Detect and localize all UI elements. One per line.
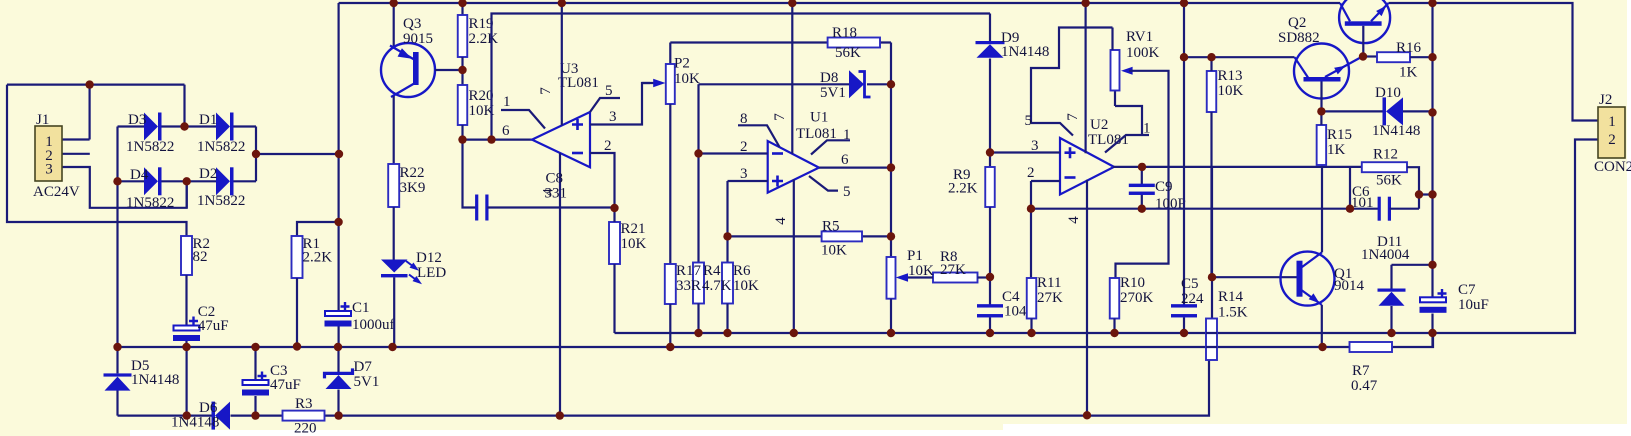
wire output top bus (right segment to J2 pin1)	[1389, 3, 1599, 121]
svg-text:C5: C5	[1181, 276, 1199, 292]
svg-text:TL081: TL081	[558, 75, 599, 91]
wire D11 top connection	[1392, 265, 1433, 289]
wire U1 pin7	[791, 3, 793, 154]
svg-text:1: 1	[503, 94, 511, 110]
wire R1 top connection	[297, 222, 339, 236]
svg-text:U2: U2	[1090, 117, 1108, 133]
capacitor C7	[1420, 297, 1446, 302]
wire R13 leads	[1210, 57, 1212, 277]
diode D6	[212, 402, 216, 430]
resistor R12	[1362, 162, 1407, 172]
svg-text:1: 1	[843, 127, 851, 143]
svg-text:7: 7	[1065, 113, 1081, 121]
wire U2 pin2 input	[1031, 181, 1060, 278]
wire D10 row	[1321, 110, 1432, 112]
diode D8 zener	[849, 70, 864, 98]
svg-text:2: 2	[1608, 132, 1616, 148]
wire bottom rail	[118, 360, 1210, 416]
resistor R6	[722, 263, 733, 304]
svg-text:5: 5	[1025, 113, 1033, 129]
svg-text:J1: J1	[36, 112, 49, 128]
svg-text:R12: R12	[1373, 147, 1398, 163]
svg-text:4: 4	[773, 217, 789, 225]
wire U1 pin1 stub	[811, 140, 850, 154]
wire C9 bottom feedback line	[1031, 208, 1380, 210]
svg-text:R4: R4	[703, 263, 721, 279]
svg-text:D1: D1	[199, 112, 217, 128]
resistor R20	[458, 85, 468, 125]
connector J2	[1598, 107, 1625, 158]
svg-text:Q2: Q2	[1288, 15, 1306, 31]
capacitor C2	[174, 326, 200, 331]
svg-text:224: 224	[1181, 291, 1204, 307]
wire U2 output	[1113, 166, 1362, 168]
svg-text:1.5K: 1.5K	[1218, 305, 1248, 321]
svg-text:3: 3	[45, 162, 53, 178]
svg-text:R13: R13	[1218, 68, 1243, 84]
svg-text:0.47: 0.47	[1351, 378, 1378, 394]
svg-text:10K: 10K	[733, 278, 759, 294]
resistor R18	[828, 38, 880, 48]
wire supply branch x=1184	[1183, 3, 1185, 307]
resistor R13	[1207, 71, 1217, 112]
wire R15 top	[1320, 111, 1322, 125]
resistor R10	[1110, 278, 1120, 319]
diode D10	[1383, 97, 1387, 125]
wire U1 pin5 stub	[809, 176, 838, 191]
svg-text:C9: C9	[1155, 179, 1173, 195]
wire Q2 node to R16	[1363, 55, 1377, 57]
wire U1 pin8 stub	[738, 125, 780, 147]
wire C8 right connection	[487, 206, 614, 208]
wire Q3 collector to R22	[393, 96, 395, 164]
wire C2 node down to bottom rail	[186, 347, 188, 416]
resistor R4	[693, 263, 704, 304]
wire C6 right plate connection	[1390, 208, 1420, 210]
svg-text:9015: 9015	[403, 31, 433, 47]
svg-text:R21: R21	[621, 221, 646, 237]
svg-text:C7: C7	[1458, 282, 1476, 298]
resistor R17	[665, 264, 676, 304]
diode D3	[144, 113, 158, 141]
wire D8 row	[699, 83, 892, 85]
wire R22 to D12	[393, 207, 395, 260]
wire U2 pin4	[1086, 180, 1088, 416]
diode D9	[976, 41, 1005, 44]
wire D9 top	[989, 14, 991, 42]
svg-text:R3: R3	[295, 396, 313, 412]
capacitor C8	[475, 195, 478, 221]
wire U2 pin5 to RV1 top loop	[1031, 28, 1113, 136]
wire P2 to R17	[669, 104, 671, 264]
wire V- rail through R14 (x continues)	[1206, 333, 1217, 347]
wire Q2 lower collector	[1320, 82, 1322, 112]
svg-text:1N5822: 1N5822	[126, 139, 174, 155]
svg-text:27K: 27K	[940, 262, 966, 278]
svg-text:R10: R10	[1120, 275, 1145, 291]
svg-text:D4: D4	[130, 167, 149, 183]
resistor R5	[822, 231, 862, 241]
svg-text:5: 5	[843, 184, 851, 200]
svg-text:1: 1	[1608, 114, 1616, 130]
wire U2 pin3 input	[990, 151, 1060, 153]
resistor R21	[609, 222, 620, 264]
svg-text:C1: C1	[352, 300, 370, 316]
svg-text:P1: P1	[907, 248, 923, 264]
svg-text:1K: 1K	[1327, 142, 1346, 158]
wire feedback bus x=891	[890, 43, 892, 258]
svg-text:1000uf: 1000uf	[352, 317, 395, 333]
svg-text:R20: R20	[469, 88, 494, 104]
wire U3 pin3 to P2 wiper	[590, 83, 656, 125]
wire base drive row y=57	[1184, 56, 1295, 58]
wire R16 right	[1410, 56, 1433, 58]
wire U3 pin1 stub	[501, 110, 545, 129]
wire R19 top	[461, 3, 463, 15]
wire P2 top connection	[669, 43, 671, 65]
svg-text:R11: R11	[1037, 275, 1061, 291]
wire U1 pin2 node vertical	[697, 84, 699, 262]
svg-text:1N4148: 1N4148	[171, 415, 219, 431]
svg-text:5: 5	[605, 83, 613, 99]
svg-text:CON2: CON2	[1594, 159, 1631, 175]
svg-text:LED: LED	[417, 265, 446, 281]
svg-text:2: 2	[1027, 165, 1035, 181]
resistor R2	[181, 236, 192, 275]
wire U2 pin7	[1084, 3, 1086, 153]
svg-text:R19: R19	[469, 16, 494, 32]
resistor R11	[1027, 278, 1037, 319]
svg-text:10K: 10K	[621, 236, 647, 252]
svg-text:3: 3	[609, 109, 617, 125]
diode D7 zener	[337, 347, 339, 416]
junction dots	[85, 80, 93, 88]
svg-text:1K: 1K	[1399, 65, 1418, 81]
wire D9 to U2 pin3 node	[989, 59, 991, 168]
wire Q2 upper base	[1362, 26, 1364, 56]
transistor Q3	[381, 43, 435, 97]
resistor R3	[283, 411, 325, 421]
transistor Q2 upper	[1339, 0, 1390, 43]
svg-text:P2: P2	[674, 56, 690, 72]
wire R12 left vertical	[1349, 167, 1351, 209]
wire bridge AC2 vertical	[186, 181, 188, 208]
svg-text:D10: D10	[1375, 85, 1401, 101]
svg-text:R22: R22	[400, 165, 425, 181]
op-amp U3	[532, 112, 590, 167]
svg-text:6: 6	[841, 152, 849, 168]
svg-text:2.2K: 2.2K	[948, 181, 978, 197]
svg-text:1N4148: 1N4148	[131, 372, 179, 388]
resistor R1	[292, 236, 303, 278]
svg-text:4.7K: 4.7K	[702, 278, 732, 294]
svg-text:56K: 56K	[835, 45, 861, 61]
svg-text:33R: 33R	[676, 278, 701, 294]
svg-text:7: 7	[538, 87, 554, 95]
svg-text:47uF: 47uF	[270, 377, 301, 393]
diode D11	[1378, 289, 1406, 292]
wire AC line from J1 pin1	[7, 85, 187, 236]
potentiometer P2	[666, 64, 675, 104]
wire U1 output	[819, 167, 891, 169]
wire R4 bottom	[697, 304, 699, 334]
svg-text:5V1: 5V1	[354, 374, 380, 390]
resistor R19	[458, 15, 468, 57]
svg-text:R6: R6	[733, 263, 751, 279]
svg-text:2: 2	[604, 138, 612, 154]
wire U3 output line	[463, 139, 533, 141]
capacitor C1	[325, 311, 351, 316]
svg-text:104: 104	[1004, 304, 1027, 320]
diode D1	[216, 113, 230, 141]
wire bridge right vertical and DC+ output	[256, 127, 339, 182]
resistor R8	[933, 273, 978, 283]
wire R14 top node to Q1 base	[1212, 167, 1298, 319]
diode D4	[144, 167, 158, 195]
transistor Q2 lower	[1294, 44, 1349, 99]
wire bridge top row	[118, 125, 257, 127]
svg-text:82: 82	[193, 249, 208, 265]
wire R8 right	[978, 276, 991, 278]
svg-text:220: 220	[294, 421, 317, 436]
svg-text:9014: 9014	[1334, 278, 1365, 294]
svg-text:R15: R15	[1327, 127, 1352, 143]
svg-text:D3: D3	[128, 112, 146, 128]
resistor R15	[1317, 125, 1327, 165]
wire bridge left vertical (AC- node)	[116, 127, 118, 348]
diode D5	[116, 347, 118, 416]
wire R1 bottom	[296, 278, 298, 346]
svg-text:101: 101	[1351, 195, 1374, 211]
wire U3 pin2	[590, 153, 615, 208]
svg-text:3: 3	[740, 166, 748, 182]
svg-text:10K: 10K	[821, 243, 847, 259]
wire J1 pin2 stub	[62, 153, 90, 155]
svg-text:3: 3	[1031, 138, 1039, 154]
wire Q1 emitter to 0V bus	[1321, 305, 1323, 347]
wire U1 pin3 input	[728, 181, 768, 263]
potentiometer RV1	[1111, 50, 1120, 91]
svg-text:7: 7	[772, 113, 788, 121]
resistor R9	[985, 167, 995, 207]
svg-text:D7: D7	[354, 359, 373, 375]
svg-text:1N4148: 1N4148	[1001, 44, 1049, 60]
wire U2 pin1 to RV1 bottom	[1105, 91, 1149, 153]
wire R17 bottom	[669, 304, 671, 347]
wire AC line from J1 pin3	[62, 167, 187, 208]
potentiometer P1	[887, 257, 896, 299]
svg-text:10K: 10K	[1218, 83, 1244, 99]
svg-text:D2: D2	[199, 166, 217, 182]
wire Q1 collector to R15	[1321, 165, 1323, 252]
wire Q3 emitter to top bus	[393, 3, 395, 47]
wire R20 to U3 output node	[461, 125, 463, 140]
svg-text:1N5822: 1N5822	[197, 139, 245, 155]
svg-text:331: 331	[545, 186, 568, 202]
op-amp U1	[768, 141, 819, 193]
wire P1 bottom	[890, 299, 892, 333]
svg-text:56K: 56K	[1376, 173, 1402, 189]
svg-text:R17: R17	[676, 263, 702, 279]
wire R18 row	[670, 41, 891, 43]
wire U3 pin7	[561, 3, 563, 126]
svg-text:R7: R7	[1352, 363, 1370, 379]
wire R21 leads	[613, 208, 615, 333]
wire D11 bottom	[1390, 306, 1392, 333]
svg-text:Q3: Q3	[403, 16, 421, 32]
svg-text:2: 2	[740, 139, 748, 155]
svg-text:270K: 270K	[1120, 290, 1154, 306]
svg-text:1N4004: 1N4004	[1361, 247, 1410, 263]
wire R12 right / C6 right side	[1407, 167, 1433, 209]
wire R6 bottom	[726, 304, 728, 334]
resistor R7	[1350, 342, 1393, 352]
wire C4 bottom	[989, 318, 991, 334]
svg-text:8: 8	[740, 111, 748, 127]
capacitor C9	[1141, 167, 1143, 209]
connector J1	[35, 126, 62, 181]
wire +V top bus (left segment)	[339, 2, 1340, 4]
wire DC+ vertical to top bus and C1	[338, 3, 340, 347]
wire C5 bottom	[1183, 318, 1185, 334]
svg-text:3K9: 3K9	[400, 180, 426, 196]
svg-text:2.2K: 2.2K	[469, 31, 499, 47]
svg-text:D12: D12	[416, 250, 442, 266]
wire V- rail y=333	[615, 140, 1599, 334]
resistor R22	[388, 164, 399, 207]
svg-text:U1: U1	[810, 110, 828, 126]
wire R9 bottom to C4 node	[989, 207, 991, 307]
capacitor C3	[254, 347, 256, 416]
capacitor C5	[1171, 304, 1197, 307]
svg-text:2.2K: 2.2K	[303, 250, 333, 266]
svg-text:10uF: 10uF	[1458, 297, 1489, 313]
svg-text:TL081: TL081	[1088, 132, 1129, 148]
svg-text:D8: D8	[820, 70, 838, 86]
svg-text:5V1: 5V1	[820, 85, 846, 101]
svg-text:10K: 10K	[908, 263, 934, 279]
wire R5 row	[728, 235, 892, 237]
wire RV1 wiper to R10	[1116, 71, 1169, 278]
wire C8 left connection	[463, 140, 477, 208]
diode D2	[216, 167, 230, 195]
wire right bus	[1431, 3, 1433, 347]
svg-text:RV1: RV1	[1126, 29, 1153, 45]
transistor Q1	[1281, 252, 1335, 306]
wire R2 to C2	[185, 275, 187, 326]
wire bridge bottom row	[118, 180, 257, 182]
svg-text:R5: R5	[822, 219, 840, 235]
wire U1 pin4	[793, 179, 795, 333]
svg-text:100K: 100K	[1126, 45, 1160, 61]
svg-text:10K: 10K	[674, 71, 700, 87]
svg-text:1N5822: 1N5822	[197, 193, 245, 209]
svg-text:J2: J2	[1599, 92, 1612, 108]
resistor R16	[1377, 52, 1410, 62]
svg-text:4: 4	[1066, 216, 1082, 224]
svg-text:27K: 27K	[1037, 290, 1063, 306]
svg-text:47uF: 47uF	[198, 318, 229, 334]
svg-text:R18: R18	[832, 25, 857, 41]
wire 0V bus	[118, 333, 1434, 347]
capacitor C6	[1378, 197, 1381, 221]
wire U3 pin4	[559, 153, 561, 416]
svg-text:1: 1	[1143, 121, 1151, 137]
svg-text:C8: C8	[546, 171, 564, 187]
wire U3 pin5 stub	[590, 98, 620, 112]
svg-text:AC24V: AC24V	[33, 184, 80, 200]
wire R19-R20 node with Q3 base	[461, 57, 463, 85]
wire U1 pin2 input	[699, 152, 768, 154]
op-amp U2	[1060, 138, 1114, 195]
wire R11 bottom	[1030, 319, 1032, 334]
capacitor C4	[977, 304, 1003, 307]
wire R10 bottom	[1113, 319, 1115, 334]
wire C2 to 0V bus	[185, 341, 187, 347]
resistor R14	[1206, 319, 1217, 361]
svg-text:1N5822: 1N5822	[126, 195, 174, 211]
svg-text:1N4148: 1N4148	[1372, 123, 1420, 139]
svg-text:R16: R16	[1396, 40, 1422, 56]
LED D12	[381, 260, 408, 273]
wire U3 output to D9 loop (via top)	[492, 14, 991, 140]
svg-text:R14: R14	[1218, 289, 1244, 305]
svg-text:6: 6	[502, 123, 510, 139]
